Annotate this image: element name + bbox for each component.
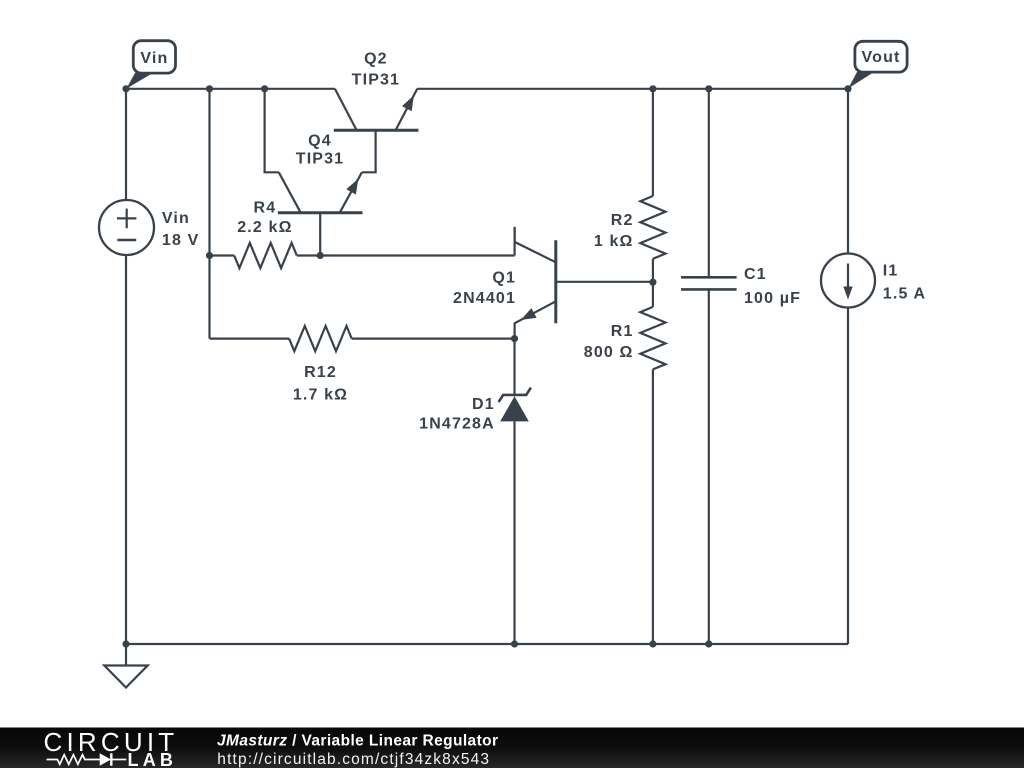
- svg-text:Vin: Vin: [140, 50, 168, 67]
- svg-text:D1: D1: [472, 396, 495, 413]
- svg-text:C1: C1: [744, 266, 767, 283]
- svg-text:Q2: Q2: [364, 51, 388, 68]
- svg-text:R12: R12: [304, 364, 337, 381]
- svg-text:100 µF: 100 µF: [744, 290, 801, 307]
- svg-text:LAB: LAB: [128, 750, 178, 768]
- svg-text:TIP31: TIP31: [296, 150, 344, 167]
- svg-text:1N4728A: 1N4728A: [419, 416, 495, 433]
- svg-text:1.5 A: 1.5 A: [883, 285, 926, 302]
- svg-text:Q1: Q1: [492, 270, 516, 287]
- svg-text:http://circuitlab.com/ctjf34zk: http://circuitlab.com/ctjf34zk8x543: [217, 751, 490, 768]
- svg-text:I1: I1: [883, 263, 899, 280]
- svg-text:18 V: 18 V: [162, 232, 200, 249]
- svg-text:JMasturz / Variable Linear Reg: JMasturz / Variable Linear Regulator: [217, 733, 498, 750]
- svg-text:Vout: Vout: [862, 49, 901, 66]
- svg-text:Q4: Q4: [308, 133, 332, 150]
- svg-text:TIP31: TIP31: [352, 71, 400, 88]
- svg-text:Vin: Vin: [162, 210, 190, 227]
- svg-text:R2: R2: [611, 212, 634, 229]
- svg-text:1 kΩ: 1 kΩ: [594, 233, 634, 250]
- svg-text:1.7 kΩ: 1.7 kΩ: [293, 386, 348, 403]
- svg-text:R4: R4: [254, 200, 277, 217]
- svg-text:2N4401: 2N4401: [453, 290, 516, 307]
- svg-text:800 Ω: 800 Ω: [584, 344, 634, 361]
- svg-text:R1: R1: [611, 323, 634, 340]
- svg-text:2.2 kΩ: 2.2 kΩ: [237, 219, 292, 236]
